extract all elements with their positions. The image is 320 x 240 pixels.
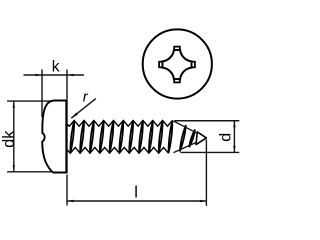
svg-text:d: d	[217, 133, 234, 142]
svg-text:k: k	[52, 59, 60, 76]
svg-text:dk: dk	[0, 130, 18, 148]
svg-text:l: l	[134, 184, 138, 202]
